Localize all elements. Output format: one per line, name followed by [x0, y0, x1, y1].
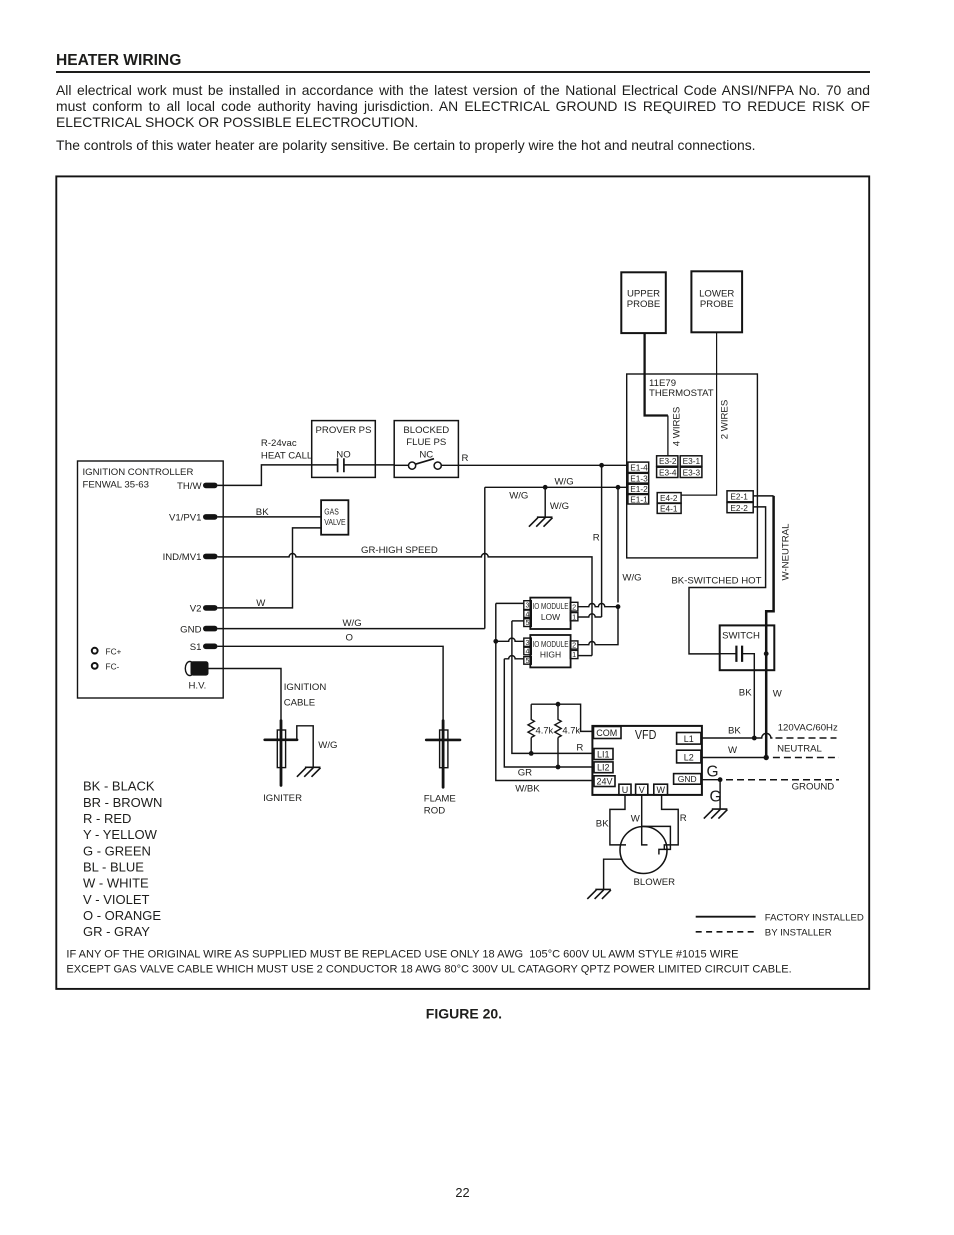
svg-text:BY INSTALLER: BY INSTALLER — [765, 927, 832, 938]
svg-text:E3-4: E3-4 — [659, 468, 677, 478]
svg-text:R-24vac: R-24vac — [261, 438, 297, 449]
svg-text:EXCEPT GAS VALVE CABLE WHICH M: EXCEPT GAS VALVE CABLE WHICH MUST USE 2 … — [66, 964, 791, 976]
wire ground drop at VFD — [719, 780, 721, 809]
svg-text:W/G: W/G — [343, 618, 362, 629]
svg-text:UPPER: UPPER — [627, 288, 660, 299]
wire IO HIGH pin3 lead — [496, 638, 524, 641]
junction E1-2 W/G tap — [616, 485, 621, 490]
resistor R1 4.7k — [528, 704, 534, 753]
switch box — [720, 625, 775, 670]
wire GND to ground junction — [701, 779, 720, 781]
svg-text:FC+: FC+ — [106, 646, 122, 656]
svg-text:E4-2: E4-2 — [660, 493, 678, 503]
svg-text:R: R — [462, 453, 469, 464]
svg-text:H.V.: H.V. — [189, 681, 207, 692]
svg-text:24V: 24V — [597, 777, 613, 787]
svg-text:E3-2: E3-2 — [659, 456, 677, 466]
ground symbol at W/G — [529, 517, 553, 527]
svg-text:GROUND: GROUND — [792, 781, 835, 792]
junction LOW2 on W/G — [616, 604, 621, 609]
svg-text:W: W — [773, 688, 783, 699]
svg-text:LOW: LOW — [541, 612, 560, 622]
switch contact — [720, 653, 737, 655]
svg-text:HEAT CALL: HEAT CALL — [261, 450, 313, 461]
svg-text:5: 5 — [526, 656, 530, 665]
terminal E1-2 — [628, 484, 649, 494]
svg-text:FLUE PS: FLUE PS — [406, 437, 446, 448]
terminal E4-1 — [657, 503, 681, 513]
svg-text:E3-3: E3-3 — [683, 468, 701, 478]
wire resistor top bus to COM — [531, 704, 593, 731]
junction L2 neutral — [764, 755, 769, 760]
svg-text:O: O — [346, 633, 353, 644]
svg-text:V: V — [639, 785, 645, 795]
key dashed line (by installer) — [696, 931, 756, 933]
junction HIGH pin3 tap — [493, 639, 498, 644]
wire LI2 riser (GR) — [504, 659, 594, 767]
gas valve box — [321, 500, 348, 535]
svg-text:E3-1: E3-1 — [683, 456, 701, 466]
terminal S1 — [203, 644, 218, 650]
svg-text:W-NEUTRAL: W-NEUTRAL — [780, 523, 791, 581]
svg-text:W/G: W/G — [622, 573, 641, 584]
svg-text:FC-: FC- — [106, 662, 120, 672]
wire U to blower (BK) — [610, 795, 626, 845]
contact NO (prover) — [312, 464, 338, 466]
svg-text:BL - BLUE: BL - BLUE — [83, 860, 144, 875]
wire LOW pin2 to W/G — [578, 604, 618, 607]
terminal E1-1 — [628, 495, 649, 505]
wire TH/W to Prover PS (R-24vac heat call) — [218, 465, 312, 486]
wire blower to ground — [604, 859, 622, 889]
terminal E3-3 — [680, 467, 702, 477]
svg-text:PROVER PS: PROVER PS — [316, 425, 372, 436]
ground symbol at igniter — [297, 767, 321, 777]
key solid line (factory installed) — [696, 916, 756, 918]
svg-text:120VAC/60Hz: 120VAC/60Hz — [778, 722, 838, 733]
svg-text:2: 2 — [572, 641, 576, 650]
svg-text:1: 1 — [572, 650, 576, 659]
terminal E3-4 — [657, 467, 678, 477]
svg-text:G - GREEN: G - GREEN — [83, 843, 151, 858]
pin LOW 5 — [524, 619, 532, 627]
wire hop over W to field — [754, 733, 772, 738]
svg-text:5: 5 — [526, 618, 530, 627]
svg-text:GAS: GAS — [324, 508, 339, 517]
junction ground — [718, 777, 723, 782]
wire L2 to W junction — [701, 757, 766, 759]
wire V2 to gas valve (W) — [218, 528, 322, 608]
wire IO LOW pin5 to LI1 riser — [512, 620, 524, 622]
svg-text:E1-4: E1-4 — [630, 463, 648, 473]
svg-text:E1-2: E1-2 — [630, 484, 648, 494]
wire ground drop — [544, 487, 546, 517]
svg-text:O - ORANGE: O - ORANGE — [83, 908, 161, 923]
svg-text:LI2: LI2 — [597, 763, 610, 773]
svg-text:E2-1: E2-1 — [730, 492, 748, 502]
dashed GROUND line — [726, 779, 839, 781]
svg-text:GR: GR — [518, 767, 532, 778]
svg-text:BK: BK — [596, 818, 609, 829]
svg-text:2: 2 — [572, 602, 576, 611]
terminal E2-2 — [727, 503, 753, 513]
VFD box — [592, 726, 702, 795]
pin HIGH 5 — [524, 657, 532, 665]
terminal IND/MV1 — [203, 554, 218, 560]
svg-text:4.7k: 4.7k — [562, 724, 580, 735]
svg-text:G: G — [707, 764, 719, 781]
diagram border frame — [56, 176, 869, 989]
svg-text:22: 22 — [455, 1185, 469, 1200]
igniter electrode — [277, 730, 285, 768]
pin HIGH 4 — [524, 647, 532, 655]
svg-text:U: U — [622, 785, 629, 795]
wire E2-1 to W-neutral — [753, 495, 773, 497]
lower probe box — [691, 271, 742, 332]
wire W/G down to IO modules — [617, 487, 619, 602]
upper probe box — [621, 272, 666, 333]
svg-text:4: 4 — [526, 609, 530, 618]
IO module HIGH box — [530, 635, 570, 667]
svg-text:Y - YELLOW: Y - YELLOW — [83, 827, 158, 842]
svg-text:FLAME: FLAME — [424, 794, 456, 805]
junction R2 bottom — [556, 765, 561, 770]
svg-text:4 WIRES: 4 WIRES — [672, 407, 683, 446]
dashed 120VAC hot line — [776, 737, 837, 739]
terminal E1-3 — [628, 473, 649, 483]
wire S1 to flame rod (O) — [218, 646, 444, 721]
svg-text:R: R — [593, 532, 600, 543]
pin LOW 4 — [524, 610, 532, 617]
wire LOW pin1 to R — [578, 614, 602, 617]
svg-text:W/BK: W/BK — [515, 783, 540, 794]
wire R vertical down to IO LOW pin 1 — [601, 465, 603, 617]
svg-text:BK-SWITCHED HOT: BK-SWITCHED HOT — [671, 576, 761, 587]
svg-text:E4-1: E4-1 — [660, 504, 678, 514]
svg-text:IGNITION CONTROLLER: IGNITION CONTROLLER — [83, 467, 194, 478]
dashed NEUTRAL line — [773, 757, 839, 759]
wire IO LOW pin3 to 24V riser — [496, 602, 524, 604]
svg-text:BK: BK — [256, 507, 269, 518]
svg-text:COM: COM — [596, 728, 617, 738]
svg-text:BK - BLACK: BK - BLACK — [83, 779, 155, 794]
svg-text:IO MODULE: IO MODULE — [533, 601, 569, 611]
svg-text:W/G: W/G — [318, 740, 337, 751]
terminal TH/W — [203, 483, 218, 489]
pin LOW 1 — [570, 613, 578, 621]
svg-text:W: W — [656, 785, 665, 795]
svg-text:NEUTRAL: NEUTRAL — [777, 744, 822, 755]
svg-text:4: 4 — [526, 647, 530, 656]
svg-text:R - RED: R - RED — [83, 811, 131, 826]
svg-text:IGNITION: IGNITION — [284, 682, 327, 693]
svg-text:S1: S1 — [190, 642, 202, 653]
svg-text:FENWAL 35-63: FENWAL 35-63 — [83, 480, 149, 491]
wire E2-2 switched hot to switch — [689, 507, 766, 654]
pressure switch PROVER PS box — [312, 421, 376, 478]
ground symbol at VFD — [704, 809, 728, 819]
wire W-neutral main (thick) — [766, 496, 773, 758]
junction L1 BK — [752, 736, 757, 741]
terminal U — [619, 784, 631, 795]
svg-text:THERMOSTAT: THERMOSTAT — [649, 388, 714, 399]
svg-text:TH/W: TH/W — [177, 481, 202, 492]
svg-text:BK: BK — [739, 687, 752, 698]
wire W to blower (R) — [662, 795, 679, 850]
svg-text:1: 1 — [572, 612, 576, 621]
svg-text:L2: L2 — [684, 752, 694, 762]
svg-text:BR - BROWN: BR - BROWN — [83, 795, 162, 810]
svg-text:SWITCH: SWITCH — [722, 631, 760, 642]
svg-text:R: R — [576, 742, 583, 753]
svg-text:PROBE: PROBE — [627, 299, 661, 310]
svg-text:W: W — [256, 598, 266, 609]
ignition controller U1 (FENWAL 35-63) — [78, 461, 224, 698]
terminal W vfd — [654, 784, 668, 795]
wire W/G horizontal to E1-2 — [485, 486, 628, 488]
svg-text:HIGH: HIGH — [540, 650, 561, 660]
wire 24V riser (W/BK) — [496, 603, 594, 780]
terminal E1-4 — [628, 462, 649, 472]
wire W/G to HIGH pin2 — [578, 607, 618, 645]
pin FC- — [92, 663, 98, 669]
svg-text:GND: GND — [678, 774, 697, 784]
svg-text:2 WIRES: 2 WIRES — [720, 400, 731, 439]
wire V to blower (W) — [642, 795, 648, 845]
svg-text:ROD: ROD — [424, 806, 445, 817]
terminal E2-1 — [727, 491, 753, 502]
svg-text:PROBE: PROBE — [700, 299, 734, 310]
wire L1 to BK junction — [701, 737, 754, 739]
svg-text:E2-2: E2-2 — [730, 503, 748, 513]
svg-text:V - VIOLET: V - VIOLET — [83, 892, 150, 907]
wire NC to E1-4 — [441, 464, 628, 466]
svg-text:BLOCKED: BLOCKED — [403, 425, 449, 436]
svg-text:LOWER: LOWER — [699, 288, 734, 299]
terminal V — [636, 784, 648, 795]
terminal LI1 — [594, 749, 613, 760]
svg-text:IGNITER: IGNITER — [263, 793, 302, 804]
svg-text:IND/MV1: IND/MV1 — [163, 552, 202, 563]
pin HIGH 1 — [570, 650, 578, 658]
svg-text:W: W — [728, 745, 738, 756]
svg-text:VALVE: VALVE — [324, 518, 345, 527]
svg-text:IF ANY OF THE ORIGINAL WIRE AS: IF ANY OF THE ORIGINAL WIRE AS SUPPLIED … — [66, 949, 738, 961]
junction ground tap — [543, 485, 548, 490]
svg-text:V1/PV1: V1/PV1 — [169, 513, 202, 524]
terminal E4-2 — [657, 493, 681, 503]
terminal L2 — [677, 750, 701, 763]
terminal LI2 — [594, 762, 613, 773]
junction on W inside switch — [764, 651, 769, 656]
pin HIGH 2 — [570, 641, 578, 649]
contact NC (blocked flue) — [394, 464, 408, 466]
svg-text:IO MODULE: IO MODULE — [533, 639, 569, 649]
wire upper probe 4-wires — [645, 333, 668, 415]
wire H.V. to igniter — [209, 669, 282, 722]
terminal E3-2 — [657, 456, 678, 466]
terminal E3-1 — [680, 456, 702, 466]
terminal V2 — [203, 605, 218, 611]
wire LI1 riser — [512, 621, 594, 754]
flame rod electrode — [440, 730, 448, 768]
wire V1/PV1 to gas valve (BK) — [218, 516, 322, 518]
pin HIGH 3 — [524, 638, 532, 646]
ground symbol at blower — [587, 889, 611, 899]
terminal 24V — [594, 776, 615, 787]
svg-text:E1-3: E1-3 — [630, 473, 648, 483]
svg-text:VFD: VFD — [635, 727, 657, 742]
wire IND/MV1 GR-HIGH SPEED — [218, 554, 593, 656]
blower motor M1 — [620, 827, 667, 874]
svg-text:GR - GRAY: GR - GRAY — [83, 924, 150, 939]
svg-text:W: W — [631, 814, 641, 825]
svg-text:FACTORY INSTALLED: FACTORY INSTALLED — [765, 913, 864, 924]
svg-text:BK: BK — [728, 726, 741, 737]
resistor R2 4.7k — [555, 704, 561, 767]
pin LOW 2 — [570, 602, 578, 611]
svg-text:R: R — [680, 813, 687, 824]
svg-text:L1: L1 — [684, 734, 694, 744]
wire igniter sheath to ground — [297, 726, 313, 767]
svg-text:V2: V2 — [190, 604, 202, 615]
junction R1 bottom — [529, 751, 534, 756]
terminal GND vfd — [674, 774, 701, 785]
svg-text:LI1: LI1 — [597, 750, 610, 760]
terminal H.V. — [185, 662, 194, 676]
terminal GND — [203, 626, 218, 632]
junction R2 top — [556, 702, 561, 707]
svg-text:W - WHITE: W - WHITE — [83, 876, 149, 891]
pin LOW 3 — [524, 601, 532, 610]
wire W/G riser — [484, 487, 486, 628]
svg-text:W/G: W/G — [550, 501, 569, 512]
svg-text:BLOWER: BLOWER — [634, 877, 676, 888]
svg-text:W/G: W/G — [555, 476, 574, 487]
svg-text:4.7k: 4.7k — [536, 724, 554, 735]
svg-text:FIGURE 20.: FIGURE 20. — [426, 1006, 502, 1022]
terminal V1/PV1 — [203, 514, 218, 520]
svg-text:W/G: W/G — [509, 490, 528, 501]
pressure switch BLOCKED FLUE PS box — [394, 421, 458, 478]
wire IO HIGH pin5 lead — [504, 656, 524, 659]
IO module LOW box — [530, 598, 570, 629]
wire HIGH pin1 to GR riser — [578, 655, 592, 657]
svg-text:3: 3 — [526, 638, 530, 647]
terminal COM — [594, 727, 622, 739]
pin FC+ — [92, 648, 98, 654]
thermostat box 11E79 — [627, 374, 758, 558]
svg-text:CABLE: CABLE — [284, 698, 315, 709]
terminal L1 — [677, 733, 701, 745]
wire lower probe 2-wires — [681, 332, 717, 495]
junction R tap — [599, 463, 604, 468]
svg-text:GR-HIGH SPEED: GR-HIGH SPEED — [361, 545, 438, 556]
wire GND lead — [218, 628, 485, 630]
svg-text:E1-1: E1-1 — [630, 494, 648, 504]
svg-text:GND: GND — [180, 624, 201, 635]
